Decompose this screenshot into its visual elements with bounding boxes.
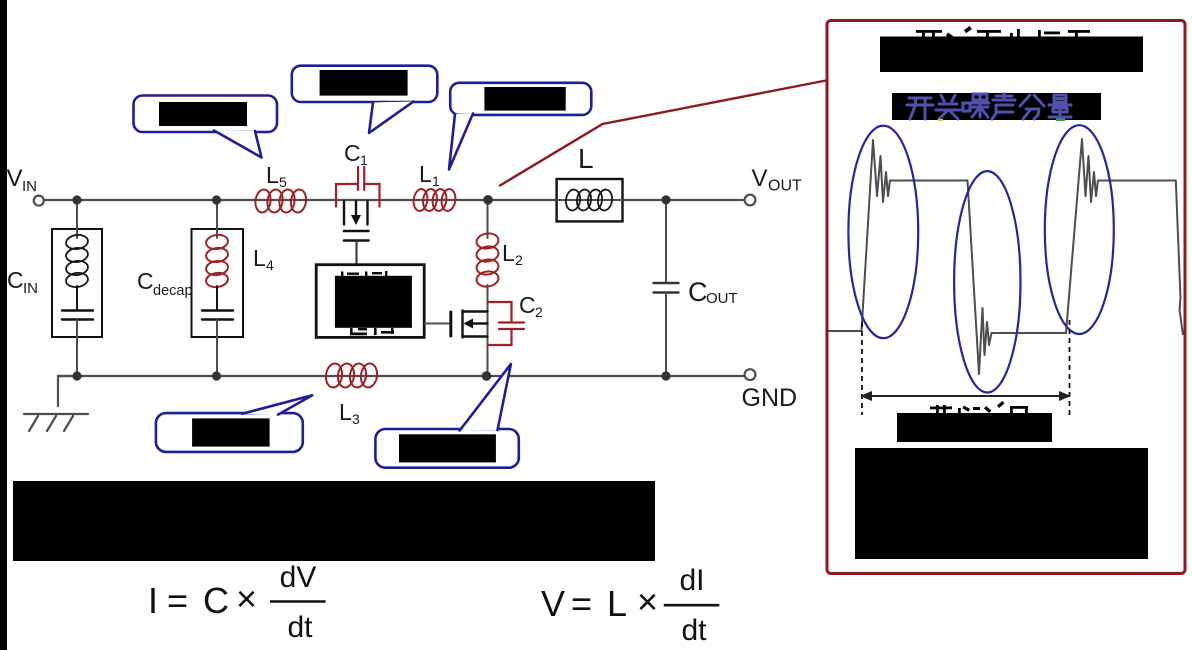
svg-text:=: = <box>571 583 592 624</box>
node Cdecap bottom junction <box>212 371 221 380</box>
capacitor Cdecap box <box>192 229 244 337</box>
inductor L3 (red, bottom rail) <box>324 363 378 389</box>
svg-text:3: 3 <box>352 411 360 427</box>
svg-text:1: 1 <box>360 152 368 168</box>
callout bubble B3 <box>450 83 591 115</box>
arrow 基波 span <box>868 395 1063 397</box>
svg-text:C: C <box>344 140 361 166</box>
capacitor below switch <box>344 230 369 233</box>
wire CIN bottom <box>76 320 78 376</box>
label 基波分量 glyph tops (partially redacted) <box>930 401 1028 413</box>
speck green <box>1056 119 1065 122</box>
formula I = C x dV/dt <box>148 578 257 621</box>
svg-text:L: L <box>253 245 266 271</box>
svg-text:L: L <box>339 399 352 425</box>
svg-text:dt: dt <box>681 614 707 647</box>
callout bubble B5 <box>375 429 518 468</box>
svg-text:×: × <box>637 581 658 622</box>
svg-text:OUT: OUT <box>768 178 802 195</box>
callout bubble B1 <box>134 96 278 133</box>
svg-text:V: V <box>7 165 23 192</box>
inductor L1 (red) <box>412 188 457 212</box>
svg-text:V: V <box>752 165 768 192</box>
wire top rail right <box>623 199 746 201</box>
label 开关噪声分量 (blue, drawn strokes) <box>907 94 1071 119</box>
wire to control box <box>356 241 358 264</box>
speck yellow <box>938 119 943 121</box>
svg-text:V: V <box>541 583 565 624</box>
terminal VOUT <box>745 195 756 206</box>
inset panel border <box>827 21 1185 574</box>
terminal VIN <box>34 196 44 206</box>
left black edge bar <box>0 0 7 650</box>
svg-text:decap: decap <box>153 283 193 299</box>
transistor Q1 (low-side MOSFET) <box>463 311 488 338</box>
svg-text:L: L <box>578 143 594 174</box>
svg-text:GND: GND <box>742 384 798 412</box>
svg-text:2: 2 <box>515 252 523 268</box>
svg-text:L: L <box>607 583 627 624</box>
svg-text:OUT: OUT <box>706 290 738 307</box>
svg-text:dV: dV <box>280 561 317 594</box>
svg-text:L: L <box>266 162 279 188</box>
redaction box behind blue label <box>892 93 1101 120</box>
node L-COUT junction <box>661 195 670 204</box>
inductor L5 (red) <box>254 189 308 214</box>
redaction box 基波分量 <box>897 413 1052 442</box>
svg-text:dI: dI <box>679 564 704 597</box>
svg-text:IN: IN <box>22 178 37 195</box>
svg-text:dt: dt <box>287 611 313 644</box>
svg-text:C: C <box>203 580 229 621</box>
capacitor COUT <box>665 200 667 282</box>
svg-text:L: L <box>419 161 432 187</box>
inductor inside CIN (parasitic ESL) <box>65 234 89 289</box>
node CIN top junction <box>72 195 81 204</box>
BOTTOM <box>13 481 719 647</box>
wire gate from control box <box>425 323 450 325</box>
ground <box>24 414 88 431</box>
redaction box inset bottom <box>855 448 1148 559</box>
control box text fragments (redacted 控制/电路) <box>341 271 394 335</box>
control circuit box U1 <box>316 265 424 338</box>
node SW (switch node) <box>483 195 493 205</box>
redaction box title <box>880 37 1143 73</box>
dashed marker left <box>861 322 863 415</box>
inductor L2 (red vertical) <box>476 232 500 288</box>
wire Cdecap top <box>216 202 218 238</box>
capacitor C2 (red parasitic across FET) <box>488 302 524 345</box>
svg-text:4: 4 <box>266 257 274 273</box>
callout bubble B4 <box>156 413 303 452</box>
capacitor plates Cdecap <box>202 309 233 311</box>
dashed marker right <box>1069 320 1071 415</box>
wire Cdecap bottom <box>216 320 218 376</box>
ellipse ring 2 <box>954 171 1020 392</box>
svg-text:C: C <box>688 277 708 307</box>
node COUT bottom junction <box>661 371 670 380</box>
wire CIN mid <box>76 286 78 309</box>
svg-text:C: C <box>519 292 536 318</box>
title 开关节点波形 glyph tops (partially redacted) <box>916 26 1090 40</box>
INSET <box>827 21 1185 574</box>
waveform trace <box>829 139 1184 374</box>
svg-text:5: 5 <box>279 174 287 190</box>
ellipse ring 3 <box>1045 125 1114 334</box>
wire SW node down to L2 <box>487 200 489 238</box>
capacitor plates CIN <box>62 309 93 311</box>
svg-text:L: L <box>502 240 515 266</box>
wire Cdecap mid <box>216 286 218 309</box>
capacitor CIN box <box>52 229 102 337</box>
svg-text:×: × <box>236 578 257 619</box>
terminal GND <box>745 369 756 380</box>
svg-text:2: 2 <box>535 304 543 320</box>
inductor L4 (red, inside Cdecap) <box>205 234 229 289</box>
wire L2 to FET drain <box>487 285 489 376</box>
callout bubble B2 <box>292 66 438 102</box>
inductor L box (output inductor) <box>557 179 623 221</box>
wire top rail left <box>43 199 557 201</box>
node CIN bottom junction <box>72 371 81 380</box>
svg-text:C: C <box>137 268 154 294</box>
wire bottom rail <box>58 375 745 377</box>
redaction box main bottom <box>13 481 655 561</box>
switch symbol (high-side FET simplified) <box>344 201 368 225</box>
svg-text:I: I <box>148 580 158 621</box>
formula V = L x dI/dt <box>541 581 658 624</box>
node FET source junction <box>482 371 492 381</box>
leader line to inset (dark red) <box>500 81 826 186</box>
wire CIN top <box>76 202 78 238</box>
node Cdecap top junction <box>212 195 221 204</box>
ellipse ring 1 <box>848 126 918 339</box>
wire ground stub <box>58 376 77 406</box>
svg-text:C: C <box>7 267 24 293</box>
svg-text:1: 1 <box>432 173 440 189</box>
svg-text:=: = <box>167 580 188 621</box>
svg-text:IN: IN <box>23 280 38 297</box>
capacitor C1 (red parasitic across switch) <box>336 167 380 207</box>
